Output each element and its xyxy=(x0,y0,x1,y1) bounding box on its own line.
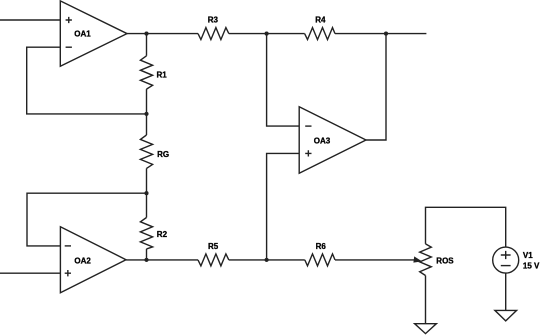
wire: OA1 output to R3 xyxy=(127,33,198,35)
wire: R6 to ROS wiper arrow xyxy=(335,259,415,261)
wire: node A to RG xyxy=(146,114,148,135)
node F: R4 / OA3 output junction xyxy=(384,32,388,36)
wire: ROS top to V1 top xyxy=(426,207,506,247)
wire: V1 bottom to ground xyxy=(505,273,507,310)
wire: OA3 output up to node F xyxy=(366,34,386,140)
svg-text:OA2: OA2 xyxy=(74,257,91,266)
wire: R5 to R6 xyxy=(229,259,305,261)
wire: RG to node B xyxy=(146,168,148,193)
svg-text:R3: R3 xyxy=(208,15,219,24)
resistor RG xyxy=(140,135,169,168)
svg-text:R4: R4 xyxy=(315,15,326,24)
svg-text:ROS: ROS xyxy=(436,256,454,265)
resistor R6 xyxy=(305,242,335,266)
wire: node B to R2 xyxy=(146,193,148,217)
node D: R5/R6/OA3 + input junction xyxy=(265,258,269,262)
op-amp OA3 xyxy=(299,107,366,174)
svg-text:R1: R1 xyxy=(157,70,168,79)
resistor R2 xyxy=(140,218,167,249)
node: OA1 output junction xyxy=(144,32,148,36)
resistor R4 xyxy=(305,15,335,39)
svg-text:R2: R2 xyxy=(157,230,168,239)
svg-text:R5: R5 xyxy=(208,242,219,251)
wire: OA3 non-inverting input to node D xyxy=(267,153,300,260)
node A: R1/RG/OA1 feedback junction xyxy=(144,112,148,116)
wire: OA2 non-inverting input from left edge xyxy=(0,272,60,274)
svg-text:OA3: OA3 xyxy=(314,136,331,145)
potentiometer ROS xyxy=(420,244,455,276)
wire: R2 to OA2 output node xyxy=(146,249,148,260)
resistor R3 xyxy=(198,15,229,39)
resistor R5 xyxy=(198,242,229,266)
ground (below V1) xyxy=(495,310,517,321)
svg-text:RG: RG xyxy=(157,150,169,159)
svg-text:OA1: OA1 xyxy=(74,30,91,39)
voltage source V1 xyxy=(493,247,540,273)
node C: OA2 output / R2 / R5 junction xyxy=(144,258,148,262)
op-amp OA2 xyxy=(60,227,126,293)
node E: R3 / OA3 inverting branch junction xyxy=(265,32,269,36)
wire: node E down to OA3 inverting input xyxy=(267,34,300,127)
svg-text:V1: V1 xyxy=(523,251,533,260)
resistor R1 xyxy=(140,56,167,89)
svg-text:15 V: 15 V xyxy=(523,262,540,271)
ground (below ROS) xyxy=(415,324,437,334)
op-amp OA1 xyxy=(60,1,127,66)
wire: ROS bottom to ground xyxy=(425,276,427,324)
wire: OA2 output to R5 xyxy=(126,259,198,261)
node B: RG/R2/OA2 feedback junction xyxy=(144,191,148,195)
wire: R3 to R4 xyxy=(229,33,305,35)
wire: OA1 output down to R1 xyxy=(146,34,148,56)
svg-text:R6: R6 xyxy=(316,242,327,251)
wire: OA1 feedback (inverting input to R1/RG node) xyxy=(27,47,145,114)
wire: R1 to node A xyxy=(146,89,148,114)
wire: OA2 feedback (node B to inverting input) xyxy=(27,193,147,246)
wire: OA1 non-inverting input from left edge xyxy=(0,19,60,21)
wire: R4 to output end xyxy=(335,33,426,35)
